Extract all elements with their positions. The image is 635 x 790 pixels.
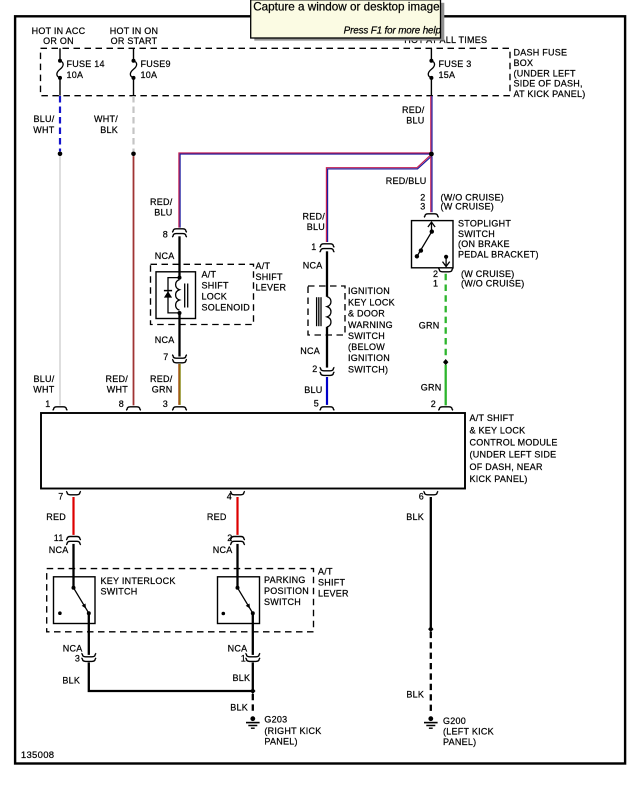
- svg-text:1: 1: [45, 399, 50, 409]
- svg-text:FUSE9: FUSE9: [141, 59, 171, 69]
- pin labels 2/3 stoplight top: [420, 193, 425, 212]
- wire fuse9 out: [133, 78, 135, 96]
- svg-text:RED/BLU: RED/BLU: [386, 176, 427, 186]
- wire fuse3 feed: [430, 48, 432, 60]
- junction node GRN: [443, 359, 448, 365]
- solenoid internals: loop, diode, coil, core: [164, 276, 188, 315]
- wire fuse14 feed: [59, 48, 61, 60]
- svg-text:KEY INTERLOCK: KEY INTERLOCK: [101, 576, 176, 586]
- wire NCA black to ignition switch: [326, 251, 328, 296]
- label HOT IN ACC OR ON: [32, 26, 86, 46]
- svg-text:OR ON: OR ON: [43, 36, 74, 46]
- wire black key interlock out: [88, 613, 90, 655]
- solenoid L1 box: [156, 272, 196, 319]
- svg-text:KICK PANEL): KICK PANEL): [470, 474, 528, 484]
- svg-text:3: 3: [163, 399, 168, 409]
- svg-text:(UNDER LEFT: (UNDER LEFT: [514, 68, 577, 78]
- wire RED/BLU from fuse 3 (two-tone): [431, 96, 432, 152]
- svg-text:LOCK: LOCK: [202, 292, 228, 302]
- wire BLK dashed to G203: [252, 694, 254, 714]
- svg-text:(LEFT KICK: (LEFT KICK: [443, 727, 494, 737]
- svg-text:OR START: OR START: [111, 36, 158, 46]
- wire RED/BLU branch to solenoid (two-tone): [179, 153, 432, 228]
- svg-text:7: 7: [58, 491, 63, 501]
- svg-text:BLU: BLU: [154, 208, 172, 218]
- tooltip box: [251, 0, 441, 38]
- wire RED key interlock: [72, 497, 74, 535]
- label (W CRUISE)/(W/O CRUISE): [461, 269, 525, 288]
- wire RED/BLU branch to ignition switch (two-tone): [326, 155, 431, 242]
- wire BLK key interlock to splice: [89, 662, 253, 691]
- junction node BLK G200: [428, 626, 433, 632]
- svg-text:HOT IN ON: HOT IN ON: [110, 26, 159, 36]
- svg-text:PARKING: PARKING: [264, 575, 306, 585]
- svg-text:BLK: BLK: [100, 125, 118, 135]
- label STOPLIGHT SWITCH (ON BRAKE PEDAL BRACKET): [458, 219, 539, 260]
- svg-text:IGNITION: IGNITION: [348, 286, 390, 296]
- svg-text:10A: 10A: [141, 70, 158, 80]
- A/T shift lever dashed box (bottom): [47, 569, 314, 632]
- svg-text:A/T: A/T: [202, 269, 217, 279]
- dash fuse box (dashed boundary): [41, 48, 511, 95]
- svg-text:5: 5: [314, 398, 319, 408]
- ground G203: [246, 716, 260, 728]
- svg-text:2: 2: [312, 364, 317, 374]
- label RED/BLU at solenoid drop: [150, 197, 173, 218]
- svg-text:G200: G200: [443, 716, 466, 726]
- svg-text:PANEL): PANEL): [443, 737, 476, 747]
- svg-text:NCA: NCA: [49, 545, 69, 555]
- svg-text:(BELOW: (BELOW: [348, 342, 385, 352]
- svg-text:CONTROL MODULE: CONTROL MODULE: [470, 438, 558, 448]
- svg-text:RED/: RED/: [302, 212, 325, 222]
- svg-text:BLK: BLK: [233, 673, 251, 683]
- svg-text:GRN: GRN: [419, 321, 440, 331]
- connector pin 1 at module: [53, 407, 68, 410]
- fuse F14: [57, 59, 63, 80]
- svg-text:BLK: BLK: [62, 676, 80, 686]
- svg-text:(UNDER LEFT SIDE: (UNDER LEFT SIDE: [470, 450, 557, 460]
- svg-text:GRN: GRN: [421, 382, 442, 392]
- svg-text:GRN: GRN: [152, 385, 173, 395]
- label KEY INTERLOCK SWITCH: [101, 576, 176, 597]
- in-line connector 11 (pair): [66, 537, 81, 545]
- fuse F3: [428, 59, 434, 80]
- wire BLU/WHT dashed segment: [59, 96, 61, 151]
- svg-text:SWITCH: SWITCH: [264, 597, 301, 607]
- svg-text:SHIFT: SHIFT: [202, 280, 230, 290]
- wire NCA black to key interlock switch: [72, 544, 74, 588]
- label G200 (LEFT KICK PANEL): [443, 716, 494, 747]
- svg-text:& KEY LOCK: & KEY LOCK: [470, 425, 526, 435]
- svg-text:A/T SHIFT: A/T SHIFT: [470, 413, 515, 423]
- svg-text:11: 11: [54, 533, 64, 543]
- pin labels 2/1 stoplight bottom: [433, 269, 438, 288]
- connector pin 3 at module: [172, 407, 187, 410]
- parking position switch internals: [222, 586, 255, 616]
- svg-text:1: 1: [433, 278, 438, 288]
- in-line connector 7 (pair): [172, 355, 187, 363]
- wire GRN dashed: [445, 274, 447, 359]
- svg-text:15A: 15A: [439, 70, 456, 80]
- wire BLK dashed to G200: [430, 632, 432, 714]
- svg-text:WHT: WHT: [33, 385, 54, 395]
- svg-text:PANEL): PANEL): [264, 737, 297, 747]
- wire RED parking: [236, 497, 238, 535]
- svg-text:RED/: RED/: [150, 197, 173, 207]
- junction node BLK splice: [250, 688, 255, 694]
- svg-text:RED: RED: [207, 512, 227, 522]
- wire NCA black to solenoid: [178, 236, 180, 277]
- svg-text:DASH FUSE: DASH FUSE: [514, 48, 568, 58]
- connector pin 8 at module: [126, 407, 141, 410]
- svg-text:& DOOR: & DOOR: [348, 309, 385, 319]
- svg-text:BLU: BLU: [307, 222, 325, 232]
- junction splice col1: [58, 152, 63, 157]
- svg-text:1: 1: [241, 653, 246, 663]
- wire fuse14 out: [59, 78, 61, 96]
- junction node RED/BLU: [429, 152, 434, 157]
- svg-text:A/T: A/T: [318, 566, 333, 576]
- svg-text:BLU/: BLU/: [33, 374, 54, 384]
- label FUSE 14 10A: [67, 59, 105, 80]
- svg-text:LEVER: LEVER: [256, 282, 287, 292]
- svg-text:FUSE 14: FUSE 14: [67, 59, 105, 69]
- stoplight switch U? box: [412, 221, 454, 268]
- svg-text:NCA: NCA: [303, 261, 323, 271]
- label IGNITION KEY LOCK & DOOR WARNING SWITCH (BELOW IGNITION SWITCH): [348, 286, 395, 374]
- wire BLU solid: [326, 377, 328, 405]
- label WHT/BLK: [94, 114, 118, 135]
- label A/T SHIFT LEVER (bottom): [318, 566, 349, 598]
- in-line connector 8 (pair): [172, 229, 187, 237]
- svg-text:RED/: RED/: [150, 374, 173, 384]
- in-line connector 1 (pair): [245, 653, 260, 661]
- svg-text:WHT/: WHT/: [94, 114, 118, 124]
- wire RED/WHT solid to module: [133, 156, 135, 405]
- svg-text:RED/: RED/: [105, 374, 128, 384]
- svg-text:SWITCH: SWITCH: [348, 331, 385, 341]
- svg-text:BLK: BLK: [230, 703, 248, 713]
- svg-text:BLK: BLK: [406, 512, 424, 522]
- label RED/BLU at ignition drop: [302, 212, 325, 232]
- key interlock switch internals: [58, 586, 91, 615]
- label RED/WHT: [105, 374, 128, 395]
- svg-text:7: 7: [163, 352, 168, 362]
- connector pin 2 at module: [438, 407, 453, 410]
- wire fuse3 out: [430, 78, 432, 96]
- svg-text:PEDAL BRACKET): PEDAL BRACKET): [458, 249, 539, 259]
- svg-text:3: 3: [420, 202, 425, 212]
- svg-text:(ON BRAKE: (ON BRAKE: [458, 239, 510, 249]
- fuse F9: [130, 59, 136, 80]
- connector pin 7 below module: [66, 491, 81, 494]
- svg-text:(W/O CRUISE): (W/O CRUISE): [461, 278, 525, 288]
- svg-text:SIDE OF DASH,: SIDE OF DASH,: [514, 79, 583, 89]
- svg-text:WARNING: WARNING: [348, 320, 393, 330]
- svg-text:HOT IN ACC: HOT IN ACC: [32, 26, 86, 36]
- svg-text:(RIGHT KICK: (RIGHT KICK: [264, 726, 321, 736]
- label BLU/WHT upper: [33, 114, 54, 135]
- wire BLU/WHT solid to module: [59, 156, 61, 405]
- svg-text:SWITCH: SWITCH: [458, 229, 495, 239]
- ground G200: [424, 716, 438, 728]
- label FUSE9 10A: [141, 59, 171, 80]
- connector pin 4 below module: [230, 491, 245, 494]
- in-line connector 2 (pair): [230, 537, 245, 545]
- svg-text:1: 1: [311, 242, 316, 252]
- label (W/O CRUISE)/(W CRUISE): [441, 193, 505, 212]
- svg-text:Capture a window or desktop im: Capture a window or desktop image: [253, 0, 439, 13]
- svg-text:LEVER: LEVER: [318, 588, 349, 598]
- key interlock switch box: [54, 577, 96, 624]
- connector at stoplight switch top: [424, 214, 439, 217]
- wire WHT/BLK dashed segment: [132, 96, 134, 151]
- svg-text:BLU: BLU: [406, 116, 424, 126]
- svg-text:8: 8: [119, 399, 124, 409]
- svg-text:RED/: RED/: [402, 105, 425, 115]
- label G203 (RIGHT KICK PANEL): [264, 714, 321, 746]
- svg-text:STOPLIGHT: STOPLIGHT: [458, 219, 511, 229]
- label PARKING POSITION SWITCH: [264, 575, 309, 607]
- svg-text:NCA: NCA: [63, 643, 83, 653]
- svg-text:BLK: BLK: [406, 689, 424, 699]
- svg-text:NCA: NCA: [228, 643, 248, 653]
- wire black parking out: [252, 613, 254, 655]
- wire RED/BLU to stoplight switch (two-tone): [431, 156, 432, 212]
- svg-text:KEY LOCK: KEY LOCK: [348, 298, 395, 308]
- svg-text:A/T: A/T: [256, 261, 271, 271]
- svg-text:NCA: NCA: [155, 251, 175, 261]
- connector pin 5 at module: [320, 407, 335, 410]
- svg-text:(W CRUISE): (W CRUISE): [441, 202, 495, 212]
- wire BLK parking to splice: [252, 662, 254, 691]
- wire NCA black below ignition switch: [326, 327, 328, 368]
- label RED/BLU top: [402, 105, 425, 126]
- connector at stoplight switch bottom: [438, 268, 453, 271]
- svg-text:NCA: NCA: [300, 346, 320, 356]
- wire BLK solid from pin 6: [430, 497, 432, 628]
- svg-text:SWITCH): SWITCH): [348, 365, 388, 375]
- svg-text:6: 6: [419, 491, 424, 501]
- label A/T SHIFT LEVER (solenoid box): [256, 261, 287, 292]
- junction splice col2: [131, 152, 136, 157]
- svg-text:10A: 10A: [67, 70, 84, 80]
- wire fuse9 feed: [133, 48, 135, 60]
- svg-text:2: 2: [431, 399, 436, 409]
- svg-text:NCA: NCA: [155, 335, 175, 345]
- label HOT IN ON OR START: [110, 26, 159, 46]
- svg-text:8: 8: [163, 229, 168, 239]
- ignition coil internals: [317, 297, 331, 327]
- parking position switch box: [218, 577, 260, 624]
- svg-text:SHIFT: SHIFT: [256, 272, 284, 282]
- svg-text:SHIFT: SHIFT: [318, 577, 346, 587]
- in-line connector 2 (pair): [320, 367, 335, 375]
- svg-text:SOLENOID: SOLENOID: [202, 303, 251, 313]
- wire NCA black to parking switch: [236, 544, 238, 588]
- A/T shift lever dashed box (solenoid): [151, 264, 254, 324]
- svg-text:RED: RED: [46, 512, 66, 522]
- svg-text:AT KICK PANEL): AT KICK PANEL): [514, 89, 586, 99]
- A/T shift & key lock control module box: [41, 413, 465, 489]
- svg-text:BLU/: BLU/: [33, 114, 54, 124]
- svg-text:Press F1 for more help: Press F1 for more help: [344, 25, 442, 36]
- label RED/GRN: [150, 374, 173, 395]
- ignition key lock switch dashed box: [308, 286, 345, 335]
- svg-text:WHT: WHT: [33, 125, 54, 135]
- connector pin 6 below module: [423, 491, 438, 494]
- tooltip shadow: [254, 3, 444, 41]
- svg-text:G203: G203: [264, 714, 287, 724]
- stoplight switch internals: [415, 222, 450, 266]
- label DASH FUSE BOX (UNDER LEFT SIDE OF DASH, AT KICK PANEL): [514, 48, 586, 100]
- label A/T SHIFT LOCK SOLENOID: [202, 269, 251, 312]
- svg-text:3: 3: [75, 653, 80, 663]
- svg-text:IGNITION: IGNITION: [348, 353, 390, 363]
- label BLU/WHT lower: [33, 374, 54, 395]
- svg-text:POSITION: POSITION: [264, 586, 309, 596]
- label FUSE 3 15A: [439, 59, 472, 80]
- svg-text:135008: 135008: [21, 750, 55, 761]
- wire GRN solid: [445, 365, 447, 406]
- svg-text:OF DASH, NEAR: OF DASH, NEAR: [470, 462, 544, 472]
- wire NCA black below solenoid: [178, 313, 180, 357]
- svg-text:NCA: NCA: [213, 545, 233, 555]
- label A/T SHIFT & KEY LOCK CONTROL MODULE (UNDER LEFT SIDE OF DASH, NEAR KICK PANEL): [470, 413, 558, 484]
- svg-text:BLU: BLU: [304, 385, 322, 395]
- in-line connector 3 (pair): [81, 653, 96, 661]
- svg-text:FUSE 3: FUSE 3: [439, 59, 472, 69]
- in-line connector 1 (pair): [320, 244, 335, 252]
- svg-text:WHT: WHT: [107, 385, 128, 395]
- wire RED/GRN (two-tone): [179, 364, 180, 405]
- svg-text:SWITCH: SWITCH: [101, 586, 138, 596]
- svg-text:BOX: BOX: [514, 58, 534, 68]
